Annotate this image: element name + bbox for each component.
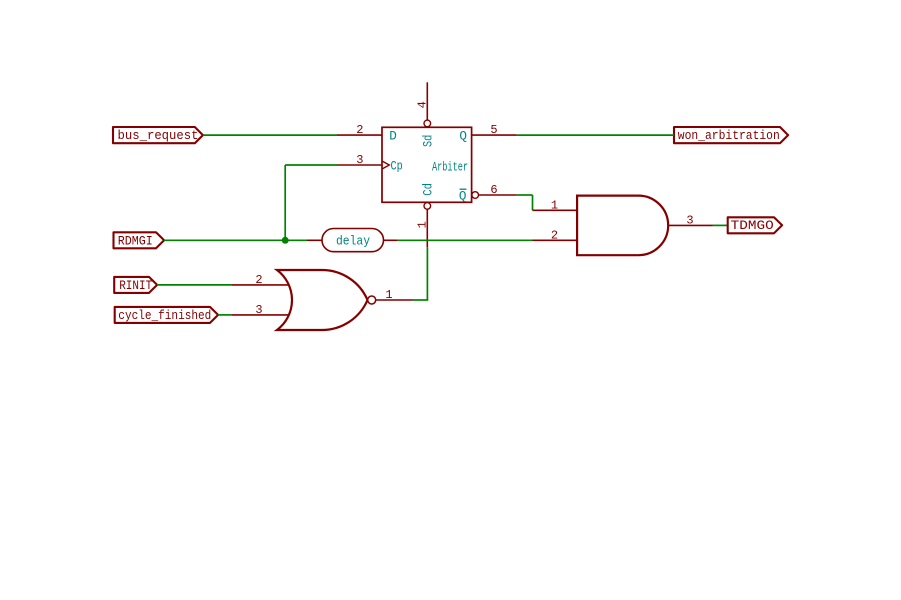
wire horizontal to Cp pin bbox=[285, 164, 337, 166]
svg-text:2: 2 bbox=[255, 273, 262, 287]
delay right pin bbox=[384, 239, 398, 241]
NOR gate U3 body bbox=[277, 270, 368, 330]
wire Cd pin down to NOR output bbox=[426, 247, 428, 300]
svg-text:4: 4 bbox=[415, 101, 429, 108]
NOR output pin 1 line bbox=[376, 299, 413, 301]
svg-text:Q: Q bbox=[459, 130, 467, 144]
wire bus_request to pin D bbox=[203, 134, 337, 136]
delay left pin bbox=[307, 239, 322, 241]
global label RINIT bbox=[114, 277, 157, 293]
svg-text:Q: Q bbox=[459, 189, 467, 203]
svg-text:TDMGO: TDMGO bbox=[731, 219, 774, 233]
svg-text:1: 1 bbox=[385, 288, 392, 302]
svg-text:Cp: Cp bbox=[391, 160, 403, 174]
svg-text:5: 5 bbox=[490, 123, 497, 137]
pin 1 inversion bubble bbox=[424, 203, 431, 210]
Qbar overline bbox=[460, 188, 467, 190]
svg-text:bus_request: bus_request bbox=[118, 129, 199, 143]
pin 6 Qbar inversion bubble bbox=[472, 192, 479, 199]
global label TDMGO bbox=[728, 217, 782, 233]
AND pin 2 line bbox=[533, 239, 578, 241]
svg-text:Arbiter: Arbiter bbox=[432, 160, 468, 174]
global label cycle_finished bbox=[115, 307, 218, 323]
AND pin 3 output line bbox=[668, 224, 712, 226]
global label bus_request bbox=[113, 127, 203, 143]
svg-text:D: D bbox=[389, 130, 397, 144]
wire vertical step down bbox=[532, 195, 534, 210]
NOR input pin 3 line bbox=[232, 314, 289, 316]
wire Q to won_arbitration bbox=[517, 134, 674, 136]
svg-text:won_arbitration: won_arbitration bbox=[678, 129, 780, 143]
NOR input pin 2 line bbox=[232, 284, 289, 286]
svg-text:Sd: Sd bbox=[421, 135, 435, 147]
wire RDMGI to junction bbox=[164, 239, 307, 241]
NOR output bubble bbox=[368, 296, 376, 304]
global label RDMGI bbox=[114, 232, 165, 248]
clock triangle bbox=[382, 161, 389, 169]
wire Qbar to AND input 1 bbox=[517, 194, 533, 196]
pin 6 Qbar line bbox=[479, 194, 517, 196]
delay component body bbox=[322, 229, 384, 252]
svg-text:RINIT: RINIT bbox=[119, 279, 152, 293]
pin 5 Q line bbox=[472, 134, 517, 136]
pin 3 Cp line bbox=[337, 164, 382, 166]
pin 2 D line bbox=[337, 134, 382, 136]
AND pin 1 line bbox=[533, 209, 578, 211]
wire AND output to TDMGO bbox=[713, 224, 728, 226]
wire junction up to Cp bbox=[284, 165, 286, 240]
global label won_arbitration bbox=[674, 127, 788, 143]
wire delay to AND input 2 bbox=[397, 239, 533, 241]
svg-text:cycle_finished: cycle_finished bbox=[118, 309, 211, 323]
pin 1 Cd line bbox=[426, 209, 428, 247]
svg-text:1: 1 bbox=[415, 221, 429, 228]
svg-text:6: 6 bbox=[490, 183, 497, 197]
svg-text:3: 3 bbox=[255, 303, 262, 317]
svg-text:2: 2 bbox=[551, 228, 558, 242]
svg-text:1: 1 bbox=[551, 198, 558, 212]
svg-text:3: 3 bbox=[356, 153, 363, 167]
svg-text:Cd: Cd bbox=[421, 183, 435, 196]
svg-text:3: 3 bbox=[686, 213, 693, 227]
wire RINIT to NOR input bbox=[157, 284, 232, 286]
svg-text:2: 2 bbox=[356, 123, 363, 137]
flip-flop U1 Arbiter body bbox=[382, 127, 472, 202]
pin 4 inversion bubble bbox=[424, 120, 431, 127]
junction bbox=[282, 237, 289, 244]
svg-text:RDMGI: RDMGI bbox=[118, 234, 153, 248]
wire cycle_finished to NOR input bbox=[218, 314, 232, 316]
AND gate U2 body bbox=[577, 196, 668, 256]
wire NOR output horizontal bbox=[413, 299, 429, 301]
pin 4 Sd line bbox=[426, 82, 428, 120]
svg-text:delay: delay bbox=[336, 234, 370, 248]
